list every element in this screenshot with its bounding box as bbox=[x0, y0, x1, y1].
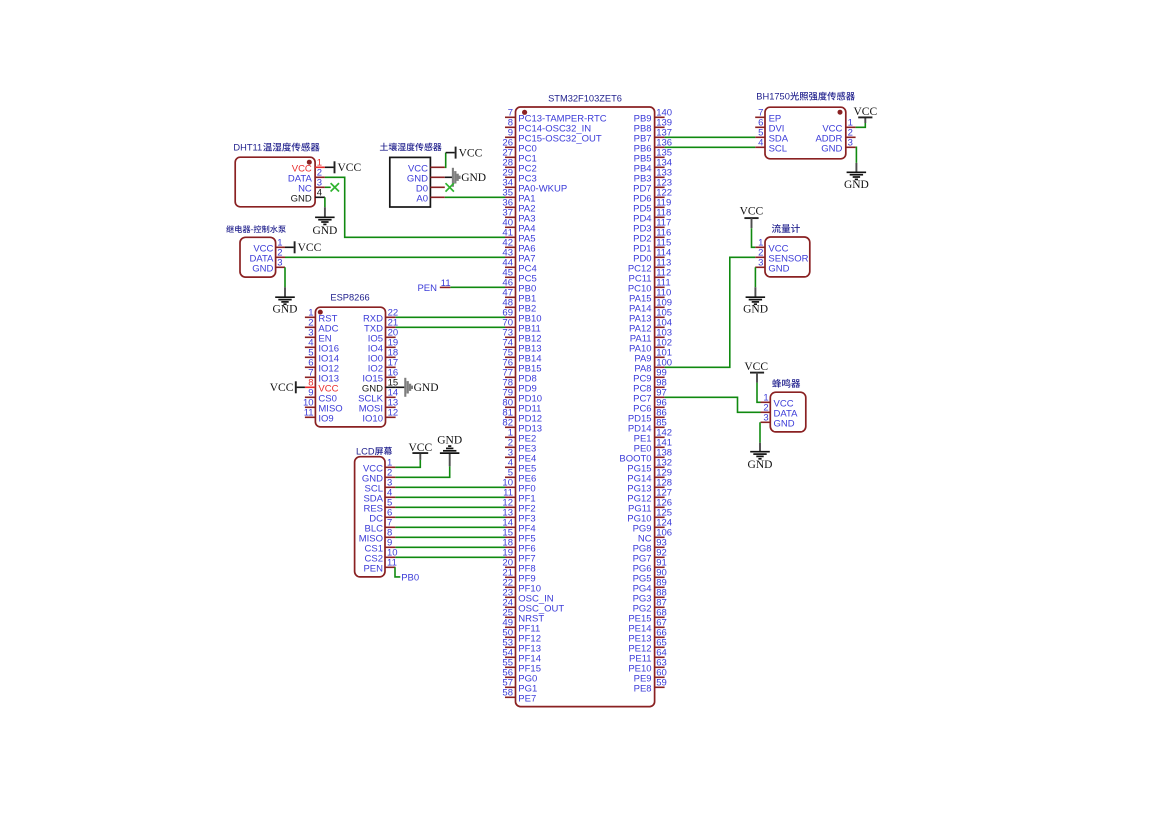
U1 pin 14 PF4 bbox=[502, 518, 535, 535]
U4 pin 1 VCC bbox=[253, 238, 285, 255]
U1 pin 105 PA13 bbox=[629, 308, 672, 325]
module U6 LCD screen (LCD屏幕) bbox=[355, 457, 385, 577]
U1 pin 101 PA9 bbox=[634, 348, 672, 365]
U5 pin 3 EN bbox=[305, 328, 332, 345]
U1 pin 3 PE4 bbox=[505, 448, 536, 465]
ground symbol GND (buzzer pin 3) bbox=[748, 422, 773, 471]
U8 pin 2 SENSOR bbox=[755, 248, 808, 265]
U5 pin 17 IO2 bbox=[368, 358, 398, 375]
U6 pin 8 MISO bbox=[359, 528, 396, 545]
U1 pin 136 PB6 bbox=[634, 138, 672, 155]
U2 title DHT11温湿度传感器 bbox=[233, 143, 319, 153]
U5 pin 2 ADC bbox=[305, 318, 339, 335]
U5 pin 18 IO0 bbox=[368, 348, 398, 365]
U1 pin 7 PC13-TAMPER-RTC bbox=[505, 108, 607, 125]
wire LCD.DC -> U1 PF3 bbox=[395, 516, 505, 518]
wire LCD.CS2 -> U1 PF7 bbox=[395, 556, 505, 558]
svg-text:GND: GND bbox=[821, 143, 842, 154]
U1 pin 96 PC6 bbox=[633, 398, 667, 415]
sensor U2 DHT11 temperature/humidity (DHT11温湿度传感器) bbox=[235, 157, 315, 207]
U1 pin 90 PG5 bbox=[633, 568, 667, 585]
U5 pin 5 IO14 bbox=[305, 348, 339, 365]
U1 pin 41 PA5 bbox=[502, 228, 535, 245]
module U5 ESP8266 wifi bbox=[315, 307, 385, 427]
IC U1 STM32F103ZET6 main microcontroller box bbox=[516, 107, 655, 707]
wire LCD.SCL -> U1 PF0 bbox=[395, 486, 505, 488]
svg-text:-: - bbox=[251, 225, 254, 234]
U2 pin 4 GND bbox=[291, 188, 325, 205]
U1 pin 12 PF2 bbox=[502, 498, 535, 515]
U1 pin 137 PB7 bbox=[634, 128, 672, 145]
U1 pin 47 PB1 bbox=[502, 288, 536, 305]
wire LCD.SDA -> U1 PF1 bbox=[395, 496, 505, 498]
power symbol VCC (ESP8266 pin 8) bbox=[270, 381, 305, 394]
svg-text:GND: GND bbox=[437, 435, 462, 447]
wire U1 PB7 (pin 137) -> BH1750.SDA bbox=[665, 136, 756, 138]
U1 pin 60 PE9 bbox=[634, 668, 667, 685]
power symbol VCC (DHT11 pin 1) bbox=[325, 161, 362, 174]
U1 pin 21 PF9 bbox=[502, 568, 535, 585]
U1 pin 100 PA8 bbox=[634, 358, 672, 375]
U1 pin 115 PD1 bbox=[633, 238, 671, 255]
ground symbol GND (LCD pin 2, earth pointing up) bbox=[395, 435, 462, 478]
U1 pin 23 OSC_IN bbox=[502, 588, 553, 605]
wire LCD.PEN stub to net label bbox=[395, 567, 400, 577]
U7 title BH1750光照强度传感器 bbox=[756, 92, 855, 102]
U1 pin 140 PB9 bbox=[634, 108, 672, 125]
svg-text:PE7: PE7 bbox=[518, 693, 536, 704]
power symbol VCC (flow meter pin 1) bbox=[740, 206, 764, 248]
svg-text:4: 4 bbox=[758, 138, 763, 149]
U1 pin 85 PD14 bbox=[628, 418, 667, 435]
U1 pin 127 PG12 bbox=[627, 488, 672, 505]
no-connect flag on DHT11 pin 3 NC bbox=[325, 183, 339, 191]
U5 pin 7 IO13 bbox=[305, 368, 339, 385]
U1 pin 54 PF14 bbox=[502, 648, 541, 665]
U1 pin 65 PE12 bbox=[628, 638, 666, 655]
U1 pin 123 PD7 bbox=[633, 178, 672, 195]
U3 pin VCC bbox=[408, 163, 445, 174]
wire DHT11.DATA -> U1 PA5 (pin 41) bbox=[325, 177, 505, 237]
U7 pin 7 EP bbox=[755, 108, 781, 125]
U3 title 土壤湿度传感器 bbox=[380, 143, 442, 151]
U1 pin 19 PF7 bbox=[502, 548, 535, 565]
wire LCD.MISO -> U1 PF5 bbox=[395, 536, 505, 538]
svg-text:A0: A0 bbox=[416, 193, 428, 204]
U6 pin 9 CS1 bbox=[365, 538, 396, 555]
U1 pin 97 PC7 bbox=[633, 388, 667, 405]
U1 pin 69 PB10 bbox=[502, 308, 541, 325]
U1 pin 132 PG15 bbox=[627, 458, 672, 475]
U1 pin 89 PG4 bbox=[633, 578, 667, 595]
ground symbol GND (ESP8266 pin 15, signal-ground style) bbox=[396, 378, 439, 397]
U2 pin 3 NC bbox=[298, 178, 325, 195]
U3 pin GND bbox=[407, 173, 445, 184]
U5 pin 10 MISO bbox=[303, 398, 343, 415]
U6 pin 5 RES bbox=[363, 498, 395, 515]
U5 pin 15 GND bbox=[362, 378, 398, 395]
U7 pin 1 VCC bbox=[822, 118, 855, 135]
U1 pin 57 PG1 bbox=[502, 678, 537, 695]
U8 pin 1 VCC bbox=[755, 238, 788, 255]
U1 pin 58 PE7 bbox=[502, 688, 536, 705]
svg-text:VCC: VCC bbox=[744, 361, 768, 373]
U5 pin 12 IO10 bbox=[362, 408, 398, 425]
U1 pin 82 PD13 bbox=[502, 418, 542, 435]
no-connect flag on soil sensor D0 pin bbox=[446, 183, 454, 191]
U6 pin 7 BLC bbox=[365, 518, 396, 535]
U1 pin 78 PD9 bbox=[502, 378, 536, 395]
svg-text:GND: GND bbox=[312, 225, 337, 237]
wire PEN -> U1 PB0 bbox=[450, 286, 505, 288]
svg-text:IO9: IO9 bbox=[318, 413, 333, 424]
U1 pin 70 PB11 bbox=[502, 318, 540, 335]
U1 pin 46 PB0 bbox=[502, 278, 536, 295]
U5 pin 6 IO12 bbox=[305, 358, 339, 375]
svg-text:PB0: PB0 bbox=[401, 573, 419, 584]
U5 pin 22 RXD bbox=[363, 308, 398, 325]
U1 pin 103 PA11 bbox=[630, 328, 672, 345]
svg-text:BH1750: BH1750 bbox=[756, 92, 790, 102]
U1 pin 48 PB2 bbox=[502, 298, 536, 315]
U1 pin 22 PF10 bbox=[502, 578, 541, 595]
U3 pin D0 bbox=[416, 183, 445, 194]
U5 pin 19 IO4 bbox=[368, 338, 398, 355]
svg-text:3: 3 bbox=[848, 138, 853, 149]
U1 pin 27 PC1 bbox=[502, 148, 536, 165]
U1 pin 26 PC0 bbox=[502, 138, 536, 155]
svg-text:DHT11: DHT11 bbox=[233, 143, 262, 153]
svg-text:3: 3 bbox=[277, 258, 282, 269]
U5 pin 8 VCC bbox=[305, 378, 339, 395]
U1 pin 80 PD11 bbox=[502, 398, 541, 415]
U1 pin 68 PE15 bbox=[628, 608, 666, 625]
svg-text:STM32F103ZET6: STM32F103ZET6 bbox=[548, 93, 622, 103]
U1 pin 77 PD8 bbox=[502, 368, 536, 385]
U1 pin 87 PG2 bbox=[633, 598, 667, 615]
svg-text:VCC: VCC bbox=[408, 442, 432, 454]
U6 pin 11 PEN bbox=[363, 558, 396, 575]
svg-text:GND: GND bbox=[748, 459, 773, 471]
U3 pin A0 bbox=[416, 193, 444, 204]
ground symbol GND (relay pin 3) bbox=[273, 267, 298, 315]
U1 pin 73 PB12 bbox=[502, 328, 541, 345]
U1 pin 49 PF11 bbox=[502, 618, 540, 635]
U1 pin 10 PF0 bbox=[502, 478, 535, 495]
U4 pin 2 DATA bbox=[249, 248, 285, 265]
U1 pin 93 PG8 bbox=[633, 538, 667, 555]
U1 pin 118 PD4 bbox=[633, 208, 671, 225]
U1 pin 36 PA2 bbox=[502, 198, 535, 215]
U2 pin 1 VCC bbox=[292, 158, 325, 175]
U4 pin 3 GND bbox=[252, 258, 285, 275]
U1 pin 102 PA10 bbox=[629, 338, 672, 355]
U1 pin 34 PA0-WKUP bbox=[502, 178, 567, 195]
ground symbol GND (flow meter pin 3) bbox=[743, 267, 768, 315]
U1 pin 129 PG14 bbox=[627, 468, 672, 485]
U1 pin 135 PB5 bbox=[634, 148, 672, 165]
U1 pin 81 PD12 bbox=[502, 408, 542, 425]
U1 title STM32F103ZET6 bbox=[548, 93, 622, 103]
svg-text:12: 12 bbox=[388, 408, 399, 419]
U1 pin 1 PE2 bbox=[505, 428, 536, 445]
U1 pin 139 PB8 bbox=[634, 118, 672, 135]
U5 title ESP8266 bbox=[330, 292, 369, 302]
U1 pin 13 PF3 bbox=[502, 508, 535, 525]
U6 pin 10 CS2 bbox=[365, 548, 398, 565]
svg-text:GND: GND bbox=[768, 263, 789, 274]
U1 pin 37 PA3 bbox=[502, 208, 535, 225]
module U9 buzzer (蜂鸣器) bbox=[770, 392, 806, 432]
U5 pin 4 IO16 bbox=[305, 338, 339, 355]
U9 pin 2 DATA bbox=[761, 403, 799, 420]
U1 pin 15 PF5 bbox=[502, 528, 535, 545]
svg-text:PEN: PEN bbox=[363, 563, 383, 574]
wire U1 PA8 (pin 100) -> flow meter SENSOR bbox=[665, 257, 756, 367]
U1 pin 59 PE8 bbox=[634, 678, 667, 695]
U1 pin 125 PG10 bbox=[627, 508, 672, 525]
svg-text:VCC: VCC bbox=[338, 162, 362, 174]
U6 pin 3 SCL bbox=[365, 478, 396, 495]
U1 pin 28 PC2 bbox=[502, 158, 536, 175]
U1 pin 119 PD5 bbox=[633, 198, 671, 215]
U1 pin 42 PA6 bbox=[502, 238, 535, 255]
ground symbol GND (DHT11 pin 4) bbox=[312, 197, 337, 237]
U1 pin 53 PF13 bbox=[502, 638, 541, 655]
svg-text:11: 11 bbox=[304, 408, 314, 419]
U9 pin 1 VCC bbox=[761, 393, 794, 410]
power symbol VCC (buzzer pin 1) bbox=[744, 361, 768, 403]
U1 pin 56 PG0 bbox=[502, 668, 537, 685]
svg-text:59: 59 bbox=[656, 678, 667, 689]
U7 pin 5 SDA bbox=[755, 128, 789, 145]
U1 pin 91 PG6 bbox=[633, 558, 667, 575]
U2 pin 2 DATA bbox=[288, 168, 325, 185]
svg-text:GND: GND bbox=[291, 193, 312, 204]
U1 pin 29 PC3 bbox=[502, 168, 536, 185]
U1 pin 79 PD10 bbox=[502, 388, 542, 405]
U1 pin 18 PF6 bbox=[502, 538, 535, 555]
U1 pin 66 PE13 bbox=[628, 628, 666, 645]
U1 pin 4 PE5 bbox=[505, 458, 536, 475]
U1 pin 138 BOOT0 bbox=[619, 448, 672, 465]
sensor U8 flow meter (流量计) bbox=[765, 237, 810, 277]
wire U1 PB6 (pin 136) -> BH1750.SCL bbox=[665, 146, 756, 148]
U1 pin 92 PG7 bbox=[633, 548, 667, 565]
U1 pin 98 PC8 bbox=[633, 378, 667, 395]
wire soil.A0 -> U1 PA1 (pin 35) bbox=[445, 196, 505, 198]
U1 pin 106 NC bbox=[638, 528, 672, 545]
U1 pin 112 PC11 bbox=[629, 268, 672, 285]
wire U1 PC7 (pin 97) -> buzzer DATA bbox=[665, 397, 761, 412]
svg-text:VCC: VCC bbox=[459, 147, 483, 159]
svg-text:GND: GND bbox=[774, 418, 795, 429]
U1 pin 43 PA7 bbox=[502, 248, 535, 265]
power symbol VCC (relay pin 1) bbox=[285, 241, 322, 254]
svg-text:PEN: PEN bbox=[417, 283, 437, 294]
U1 pin 104 PA12 bbox=[629, 318, 672, 335]
U9 pin 3 GND bbox=[761, 413, 795, 430]
svg-text:GND: GND bbox=[273, 303, 298, 315]
ground symbol GND (soil sensor GND pin, signal-ground style) bbox=[445, 168, 486, 187]
U1 pin 99 PC9 bbox=[633, 368, 667, 385]
U1 pin 134 PB4 bbox=[634, 158, 672, 175]
wire relay.DATA -> U1 PA7 (pin 43) bbox=[285, 256, 505, 258]
U1 pin 109 PA14 bbox=[629, 298, 672, 315]
U6 pin 1 VCC bbox=[363, 458, 395, 475]
U1 pin 110 PA15 bbox=[629, 288, 671, 305]
U5 pin 21 TXD bbox=[364, 318, 398, 335]
U6 pin 2 GND bbox=[362, 468, 396, 485]
U1 pin 25 NRST bbox=[502, 608, 544, 625]
svg-text:GND: GND bbox=[743, 303, 768, 315]
svg-text:IO10: IO10 bbox=[362, 413, 383, 424]
U1 pin 75 PB14 bbox=[502, 348, 541, 365]
svg-text:GND: GND bbox=[844, 179, 869, 191]
svg-text:VCC: VCC bbox=[740, 206, 764, 218]
U1 pin 76 PB15 bbox=[502, 358, 541, 375]
wire LCD.BLC -> U1 PF4 bbox=[395, 526, 505, 528]
U1 pin 117 PD3 bbox=[633, 218, 671, 235]
U5 pin 9 CS0 bbox=[305, 388, 337, 405]
power symbol VCC (soil sensor VCC pin) bbox=[445, 147, 483, 168]
U1 pin 67 PE14 bbox=[628, 618, 666, 635]
svg-text:VCC: VCC bbox=[298, 242, 322, 254]
U5 pin 14 SCLK bbox=[358, 388, 398, 405]
U1 pin 133 PB3 bbox=[634, 168, 672, 185]
U5 pin 13 MOSI bbox=[359, 398, 398, 415]
net label PEN with pin number 11, wire to U1 PB0 (pin 46) bbox=[417, 278, 450, 294]
svg-text:3: 3 bbox=[763, 413, 768, 424]
U1 pin 116 PD2 bbox=[633, 228, 671, 245]
U1 pin 141 PE0 bbox=[634, 438, 672, 455]
U5 pin 16 IO15 bbox=[362, 368, 398, 385]
U1 pin 20 PF8 bbox=[502, 558, 535, 575]
U1 pin 114 PD0 bbox=[633, 248, 671, 265]
U6 pin 6 DC bbox=[369, 508, 395, 525]
U1 pin 142 PE1 bbox=[634, 428, 672, 445]
svg-text:GND: GND bbox=[252, 263, 273, 274]
U1 pin 64 PE11 bbox=[629, 648, 667, 665]
U6 pin 4 SDA bbox=[363, 488, 395, 505]
sensor U3 soil moisture (土壤湿度传感器) bbox=[390, 157, 431, 207]
wire ESP8266.TXD -> U1 PB11 (pin 70) bbox=[396, 326, 505, 328]
svg-text:ESP8266: ESP8266 bbox=[330, 292, 369, 302]
U1 pin 128 PG13 bbox=[627, 478, 672, 495]
U4 title 继电器-控制水泵 bbox=[226, 225, 286, 234]
U9 title 蜂鸣器 bbox=[772, 379, 800, 388]
net label PB0 (at LCD PEN pin) bbox=[401, 573, 419, 584]
svg-text:GND: GND bbox=[461, 172, 486, 184]
U7 pin 3 GND bbox=[821, 138, 855, 155]
U1 pin 45 PC5 bbox=[502, 268, 536, 285]
U1 pin 74 PB13 bbox=[502, 338, 541, 355]
U7 pin 6 DVI bbox=[755, 118, 784, 135]
module U4 relay water-pump control (继电器-控制水泵) bbox=[240, 237, 276, 277]
svg-text:VCC: VCC bbox=[853, 106, 877, 118]
svg-text:SCL: SCL bbox=[769, 143, 787, 154]
U1 pin 50 PF12 bbox=[502, 628, 541, 645]
power symbol VCC (BH1750 pin 1) bbox=[853, 106, 877, 128]
U1 pin 55 PF15 bbox=[502, 658, 541, 675]
svg-text:VCC: VCC bbox=[270, 382, 294, 394]
U1 pin 86 PD15 bbox=[628, 408, 667, 425]
U1 pin 124 PG9 bbox=[633, 518, 672, 535]
U5 pin 1 RST bbox=[305, 308, 338, 325]
U1 pin 63 PE10 bbox=[628, 658, 666, 675]
sensor U7 BH1750 light intensity (BH1750光照强度传感器) bbox=[765, 107, 846, 159]
wire ESP8266.RXD -> U1 PB10 (pin 69) bbox=[396, 316, 505, 318]
svg-text:PE8: PE8 bbox=[634, 683, 652, 694]
U1 pin 11 PF1 bbox=[503, 488, 536, 505]
U1 pin 113 PC12 bbox=[628, 258, 672, 275]
U7 pin 2 ADDR bbox=[815, 128, 855, 145]
U1 pin 8 PC14-OSC32_IN bbox=[505, 118, 591, 135]
U1 pin 9 PC15-OSC32_OUT bbox=[505, 128, 602, 145]
U1 pin 122 PD6 bbox=[633, 188, 672, 205]
U8 title 流量计 bbox=[772, 224, 800, 233]
U1 pin 24 OSC_OUT bbox=[502, 598, 564, 615]
U1 pin 126 PG11 bbox=[628, 498, 672, 515]
ground symbol GND (BH1750 pin 3) bbox=[844, 147, 869, 191]
power symbol VCC (LCD pin 1) bbox=[395, 442, 432, 467]
U7 pin 4 SCL bbox=[755, 138, 787, 155]
U8 pin 3 GND bbox=[755, 258, 789, 275]
svg-text:4: 4 bbox=[317, 188, 322, 199]
svg-text:LCD: LCD bbox=[356, 446, 375, 456]
wire LCD.RES -> U1 PF2 bbox=[395, 506, 505, 508]
svg-text:3: 3 bbox=[758, 258, 763, 269]
U1 pin 111 PC10 bbox=[628, 278, 671, 295]
U1 pin 2 PE3 bbox=[505, 438, 536, 455]
wire LCD.CS1 -> U1 PF6 bbox=[395, 546, 505, 548]
U5 pin 11 IO9 bbox=[304, 408, 334, 425]
U1 pin 35 PA1 bbox=[502, 188, 535, 205]
svg-text:11: 11 bbox=[387, 558, 397, 569]
U5 pin 20 IO5 bbox=[368, 328, 398, 345]
svg-text:GND: GND bbox=[414, 382, 439, 394]
svg-text:58: 58 bbox=[502, 688, 513, 699]
U6 title LCD屏幕 bbox=[356, 446, 392, 456]
U1 pin 44 PC4 bbox=[502, 258, 536, 275]
U1 pin 5 PE6 bbox=[505, 468, 536, 485]
U1 pin 40 PA4 bbox=[502, 218, 535, 235]
U1 pin 88 PG3 bbox=[633, 588, 667, 605]
